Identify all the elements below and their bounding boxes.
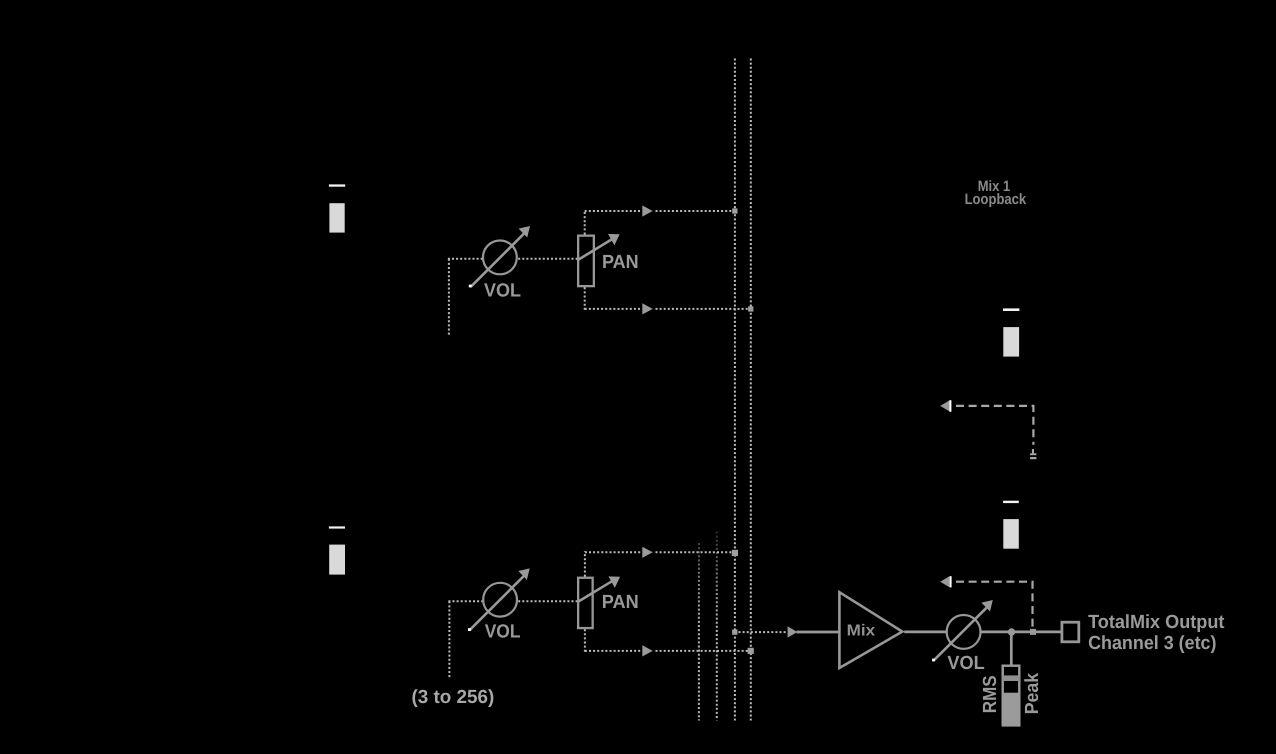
- fader input channel N tick: [329, 526, 345, 528]
- fader output Mix2 knob: [1003, 519, 1019, 549]
- PAN arrow (channel 1): [577, 240, 612, 261]
- wire: VOL2 input vertical: [448, 601, 450, 678]
- arrowhead loopback lower: [940, 576, 949, 587]
- svg-text:(3 to 256): (3 to 256): [412, 687, 495, 708]
- white cap on VOL1 arrow tail: [469, 285, 472, 288]
- wire: PAN2 top output horizontal: [585, 551, 642, 553]
- fader output Mix1 knob: [1003, 327, 1019, 357]
- junction square loopback tap: [1030, 629, 1036, 635]
- svg-text:PAN: PAN: [602, 592, 639, 613]
- loopback dashed stub vertical: [1032, 449, 1034, 453]
- svg-text:PAN: PAN: [602, 252, 639, 273]
- svg-text:Channel 3 (etc): Channel 3 (etc): [1088, 633, 1216, 654]
- wire: VOL1 input horizontal: [448, 258, 483, 260]
- PAN fader box (channel 1): [578, 236, 594, 287]
- junction mix tap on bus line 3: [732, 629, 737, 634]
- arrowhead PAN2 top output: [642, 547, 652, 558]
- junction on bus line 4 (lower): [748, 648, 754, 654]
- PAN fader box (channel N): [578, 578, 593, 628]
- level meter fill: [1002, 693, 1020, 727]
- svg-text:VOL: VOL: [947, 653, 985, 674]
- mix bus line 1 (fading): [698, 543, 700, 721]
- junction dot before meter: [1008, 628, 1015, 635]
- PAN arrow (channel N): [577, 581, 612, 602]
- wire: VOL2 to PAN2: [518, 600, 577, 602]
- mix summing amplifier triangle: [839, 592, 902, 668]
- wire: dotted to bus line 4 (lower): [656, 650, 749, 652]
- wire: PAN2 bottom output vertical: [584, 629, 586, 652]
- wire: PAN2 bottom output horizontal: [585, 650, 642, 652]
- arrowhead mix input: [788, 626, 798, 637]
- mix bus line 3: [734, 59, 736, 721]
- fader output Mix1 tick: [1003, 308, 1019, 311]
- junction on bus line 3 (lower): [732, 550, 738, 556]
- wire: PAN2 top output vertical: [584, 551, 586, 576]
- wire: dotted to bus line 3: [656, 210, 733, 212]
- junction on bus line 3: [732, 208, 737, 213]
- level meter RMS band: [1002, 675, 1020, 681]
- fader input channel 1 knob: [329, 203, 344, 232]
- loopback dashed path (upper): [956, 406, 1033, 445]
- VOL pot circle (channel 1): [483, 241, 517, 275]
- svg-text:Mix: Mix: [847, 623, 876, 640]
- mix bus line 4: [750, 59, 752, 721]
- output VOL pot circle: [947, 615, 981, 649]
- wire: PAN1 top output horizontal: [585, 210, 642, 212]
- fader input channel 1 tick: [329, 184, 345, 186]
- svg-text:Peak: Peak: [1022, 673, 1043, 715]
- loopback stub bar 1: [1030, 453, 1036, 455]
- wire: down to level meter: [1010, 632, 1013, 666]
- loopback dashed path (lower): [956, 582, 1033, 632]
- svg-text:VOL: VOL: [484, 281, 521, 302]
- level meter outline: [1003, 666, 1020, 726]
- wire: PAN1 bottom output horizontal: [585, 308, 642, 310]
- white bar behind lower loopback arrowhead: [950, 576, 952, 587]
- output terminal square: [1062, 622, 1079, 642]
- VOL pot arrow (channel N): [470, 576, 524, 630]
- arrowhead PAN2 bottom output: [642, 645, 652, 656]
- svg-text:TotalMix Output: TotalMix Output: [1088, 612, 1225, 633]
- fader input channel N knob: [329, 545, 345, 575]
- wire: solid into mix amp: [797, 631, 840, 634]
- wire: VOL1 to PAN1: [518, 258, 577, 260]
- mix bus line 2 (fading): [716, 532, 718, 721]
- fader output Mix2 tick: [1003, 501, 1019, 503]
- wire: mix amp to output VOL: [904, 631, 947, 634]
- arrowhead loopback upper: [940, 400, 949, 411]
- output VOL pot arrow: [934, 607, 988, 661]
- wire: dotted to bus line 4: [656, 308, 749, 310]
- wire: VOL2 input horizontal: [448, 600, 482, 602]
- wire: PAN1 bottom output vertical: [584, 287, 586, 310]
- white cap on output VOL arrow tail: [932, 659, 935, 662]
- wire: dotted mix tap to arrowhead: [739, 631, 787, 633]
- arrowhead PAN1 bottom output: [642, 303, 652, 314]
- white cap on VOL2 arrow tail: [468, 628, 471, 631]
- svg-text:Loopback: Loopback: [965, 191, 1027, 208]
- wire: PAN1 top output vertical: [584, 210, 586, 235]
- loopback stub bar 2: [1030, 457, 1036, 459]
- svg-text:VOL: VOL: [485, 621, 521, 642]
- wire: output VOL to output box: [981, 631, 1061, 634]
- junction on bus line 4: [748, 306, 753, 311]
- arrowhead PAN1 top output: [642, 205, 652, 216]
- svg-text:RMS: RMS: [980, 675, 1001, 713]
- white bar behind upper loopback arrowhead: [949, 400, 951, 412]
- VOL pot arrow (channel 1): [471, 233, 525, 287]
- wire: VOL1 input vertical: [448, 259, 450, 337]
- wire: dotted to bus line 3 (lower): [656, 551, 733, 553]
- VOL pot circle (channel N): [483, 583, 517, 617]
